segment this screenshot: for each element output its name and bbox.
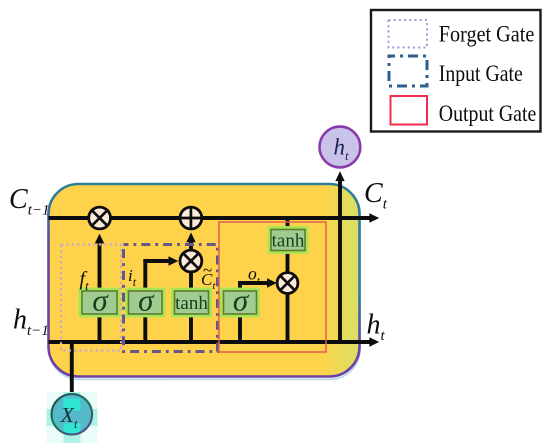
svg-text:σ: σ xyxy=(92,283,109,318)
svg-text:Forget Gate: Forget Gate xyxy=(439,22,535,48)
svg-text:tanh: tanh xyxy=(272,231,305,252)
svg-text:σ: σ xyxy=(138,283,155,318)
svg-text:tanh: tanh xyxy=(175,293,208,314)
svg-text:~: ~ xyxy=(203,261,212,280)
svg-text:Input Gate: Input Gate xyxy=(439,61,523,87)
svg-text:σ: σ xyxy=(233,283,250,318)
svg-text:Output Gate: Output Gate xyxy=(439,101,537,127)
